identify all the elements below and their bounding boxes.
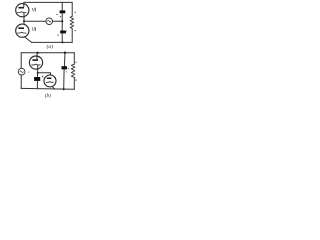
wire: from junction to tube V4 plate bbox=[38, 73, 51, 75]
tube V3 plate lead bbox=[36, 53, 38, 59]
AC source G2 sine symbol bbox=[20, 71, 23, 73]
tick: speck left of resistor bottom bbox=[65, 30, 68, 33]
tick: minus mark right of resistor R1 top bbox=[75, 11, 77, 14]
tick above junction bbox=[60, 16, 61, 17]
wire: battery branch middle (circuit a) bbox=[61, 13, 63, 30]
wire: right rail upper segment circuit (b) bbox=[73, 53, 75, 65]
battery B2 (lower blob, circuit a) bbox=[60, 31, 66, 34]
tube V4 cathode bbox=[46, 81, 53, 84]
battery E (blob, circuit b) bbox=[34, 77, 40, 81]
wire: capacitor branch lower (circuit b) bbox=[63, 69, 65, 89]
wire: top rail of circuit (b) bbox=[21, 52, 74, 54]
tube V2 cathode lead (diagonal to bottom rail) bbox=[24, 37, 31, 43]
wire: bottom rail of circuit (b) bbox=[21, 87, 74, 90]
resistor R2 (zigzag, circuit b) bbox=[71, 64, 75, 78]
polarity tick for B1 bbox=[56, 13, 58, 16]
tube V4 cathode lead (diagonal to bottom rail) bbox=[52, 86, 55, 89]
tube V1 envelope (top diode tube, circuit a) bbox=[16, 4, 29, 17]
tick below right of capacitor C bbox=[65, 70, 68, 73]
wire: right rail lower segment circuit (a) bbox=[71, 28, 73, 42]
battery B1 (upper blob, circuit a) bbox=[60, 10, 66, 13]
tick: plus mark right of resistor R1 bottom bbox=[75, 30, 76, 31]
junction node at tube V3 plate on top rail bbox=[36, 52, 38, 54]
tube V2 plate bbox=[18, 27, 24, 29]
wire: junction down to battery E bbox=[37, 73, 39, 77]
tick: minus mark right of resistor R2 top bbox=[75, 61, 77, 64]
junction node between V1 and V2 bbox=[23, 20, 25, 22]
polarity tick for B2 bbox=[58, 35, 59, 36]
tube V3 plate bbox=[32, 59, 38, 61]
tube V4 plate bbox=[47, 78, 52, 80]
svg-text:(b): (b) bbox=[45, 92, 51, 99]
wire: battery branch lower (circuit a) bbox=[61, 33, 63, 42]
wire: battery E down to bottom rail bbox=[36, 81, 38, 89]
tube V2 plate lead bbox=[23, 21, 25, 24]
tube V1 plate lead bbox=[23, 2, 25, 7]
svg-text:(a): (a) bbox=[47, 43, 54, 50]
tube V2 cathode bbox=[17, 31, 26, 34]
wire: left rail lower (circuit b) bbox=[20, 75, 22, 88]
capacitor C (blob, circuit b) bbox=[62, 66, 68, 69]
wire: left rail upper (circuit b) bbox=[20, 53, 22, 69]
junction node on middle wire (circuit a) bbox=[61, 20, 63, 22]
resistor R1 (zigzag, circuit a) bbox=[70, 16, 74, 28]
junction node battery branch bottom (circuit a) bbox=[62, 41, 64, 43]
tube V1 cathode lead bbox=[23, 13, 25, 21]
AC source G1 (circuit a) bbox=[46, 18, 53, 25]
junction node at V3 cathode (circuit b) bbox=[37, 72, 39, 74]
AC source G1 sine symbol bbox=[48, 20, 51, 22]
wire: bottom rail of circuit (a) bbox=[32, 41, 73, 43]
wire: middle wire from AC source to battery branch (circuit a) bbox=[53, 20, 63, 22]
tube V3 cathode lead bbox=[37, 65, 39, 72]
tick right of capacitor C bbox=[68, 68, 69, 69]
polarity tick right of battery E bbox=[42, 76, 43, 78]
tick: plus mark right of resistor R2 bottom bbox=[76, 80, 77, 81]
wire: right rail upper segment circuit (a) bbox=[71, 2, 73, 16]
tube V3 envelope (diode tube, circuit b) bbox=[29, 56, 42, 69]
wire: capacitor branch upper (circuit b) bbox=[63, 53, 66, 66]
wire: right rail lower segment circuit (b) bbox=[73, 79, 75, 90]
wire: battery branch upper (circuit a) bbox=[61, 2, 63, 10]
tube V3 cathode bbox=[32, 63, 41, 66]
tick left of cathode junction bbox=[28, 71, 29, 74]
AC source G2 (circuit b) bbox=[18, 68, 25, 75]
wire: middle wire from junction to AC source (circuit a) bbox=[24, 20, 46, 22]
tube V2 envelope (bottom diode tube, circuit a) bbox=[16, 24, 29, 37]
tube V1 cathode bbox=[17, 11, 26, 14]
junction node capacitor branch top bbox=[64, 52, 66, 54]
junction node capacitor branch bottom bbox=[63, 88, 65, 90]
wire: top rail of circuit (a) bbox=[24, 1, 72, 3]
tube V1 plate bbox=[18, 7, 24, 9]
tube V4 envelope (diode tube, circuit b) bbox=[44, 75, 56, 87]
